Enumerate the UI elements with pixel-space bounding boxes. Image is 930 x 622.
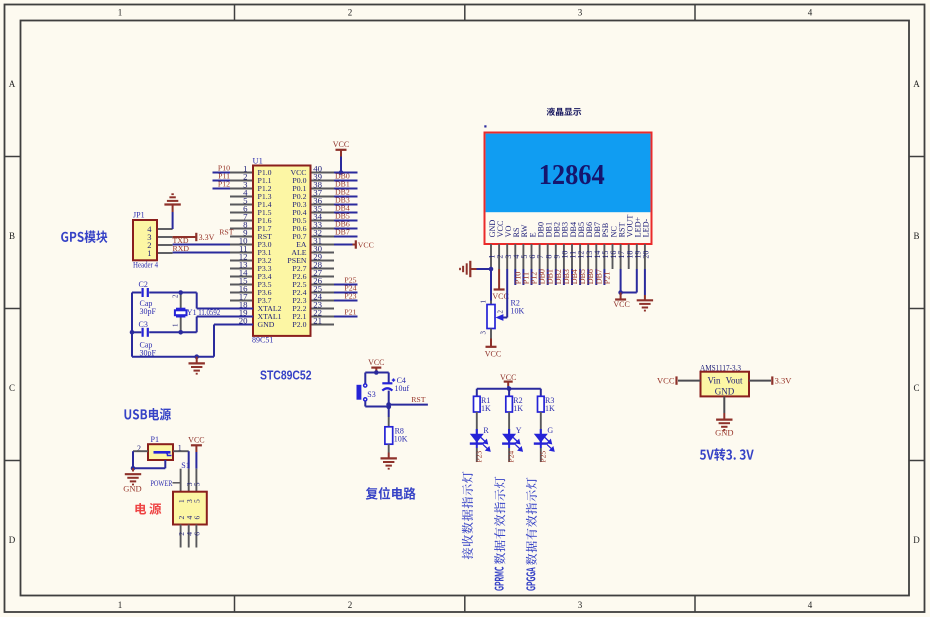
svg-text:3: 3 xyxy=(578,600,583,610)
svg-text:VCC: VCC xyxy=(657,376,675,386)
svg-text:G: G xyxy=(547,426,553,435)
svg-text:3: 3 xyxy=(480,331,488,335)
svg-text:GND: GND xyxy=(715,428,733,438)
svg-text:6: 6 xyxy=(193,516,202,520)
svg-text:11.0592: 11.0592 xyxy=(198,308,220,317)
svg-text:A: A xyxy=(9,79,16,89)
svg-text:VCC: VCC xyxy=(188,436,204,445)
svg-text:GND: GND xyxy=(258,320,275,329)
svg-text:JP1: JP1 xyxy=(133,211,145,220)
svg-text:12864: 12864 xyxy=(539,160,605,191)
svg-text:VCC: VCC xyxy=(358,240,374,249)
svg-text:1: 1 xyxy=(147,248,151,258)
svg-text:S3: S3 xyxy=(367,390,375,399)
svg-text:RXD: RXD xyxy=(173,244,190,253)
svg-text:3: 3 xyxy=(578,8,583,18)
svg-text:P2.0: P2.0 xyxy=(292,320,306,329)
svg-text:C: C xyxy=(9,383,15,393)
svg-text:C: C xyxy=(913,383,919,393)
svg-text:5: 5 xyxy=(193,499,202,503)
svg-text:2: 2 xyxy=(348,8,353,18)
svg-text:P23: P23 xyxy=(344,292,356,301)
svg-text:1K: 1K xyxy=(513,404,523,413)
svg-text:6: 6 xyxy=(193,532,202,536)
svg-text:VCC: VCC xyxy=(613,300,629,309)
svg-text:C2: C2 xyxy=(139,280,148,289)
svg-text:R: R xyxy=(483,426,489,435)
svg-text:1K: 1K xyxy=(481,404,491,413)
svg-text:P24: P24 xyxy=(507,451,516,463)
svg-text:VCC: VCC xyxy=(485,349,501,358)
svg-text:GND: GND xyxy=(715,387,735,397)
svg-text:10K: 10K xyxy=(511,307,525,316)
svg-text:10K: 10K xyxy=(394,435,408,444)
svg-text:P25: P25 xyxy=(538,451,547,463)
svg-text:20: 20 xyxy=(642,251,651,259)
svg-text:C3: C3 xyxy=(139,320,148,329)
svg-text:DB7: DB7 xyxy=(335,228,350,237)
svg-text:2: 2 xyxy=(172,294,180,298)
svg-text:POWER: POWER xyxy=(150,478,172,488)
svg-text:1: 1 xyxy=(172,323,180,327)
svg-text:U1: U1 xyxy=(253,156,263,166)
svg-text:2: 2 xyxy=(348,600,353,610)
svg-text:30pF: 30pF xyxy=(140,307,157,316)
svg-text:VCC: VCC xyxy=(368,358,384,367)
svg-text:B: B xyxy=(913,231,919,241)
svg-text:P21: P21 xyxy=(344,308,356,317)
svg-text:RST: RST xyxy=(411,395,426,404)
svg-text:Vout: Vout xyxy=(726,376,743,386)
svg-text:VCC: VCC xyxy=(333,140,349,149)
svg-text:Vin: Vin xyxy=(708,376,721,386)
svg-text:VCC: VCC xyxy=(500,373,516,382)
svg-text:P1: P1 xyxy=(151,435,159,444)
svg-text:P12: P12 xyxy=(218,180,230,189)
svg-text:4: 4 xyxy=(808,600,813,610)
svg-text:Y1: Y1 xyxy=(187,308,197,317)
svg-text:D: D xyxy=(9,535,16,545)
svg-text:D: D xyxy=(913,535,920,545)
svg-text:2: 2 xyxy=(497,310,505,314)
svg-text:89C51: 89C51 xyxy=(252,336,273,345)
svg-text:LED-: LED- xyxy=(642,218,651,237)
svg-text:4: 4 xyxy=(808,8,813,18)
svg-text:P23: P23 xyxy=(474,451,483,463)
svg-text:1: 1 xyxy=(480,300,488,304)
svg-text:STC89C52: STC89C52 xyxy=(260,368,312,383)
svg-text:3.3V: 3.3V xyxy=(775,375,793,385)
svg-text:1: 1 xyxy=(118,8,123,18)
svg-text:30pF: 30pF xyxy=(140,348,157,357)
svg-text:3.3V: 3.3V xyxy=(199,233,215,242)
svg-text:Y: Y xyxy=(516,426,522,435)
svg-text:S1: S1 xyxy=(181,461,189,470)
svg-text:1: 1 xyxy=(118,600,123,610)
svg-text:P21: P21 xyxy=(602,272,611,284)
svg-text:1K: 1K xyxy=(545,404,555,413)
svg-text:5: 5 xyxy=(193,482,202,486)
svg-text:A: A xyxy=(913,79,920,89)
svg-text:B: B xyxy=(9,231,15,241)
svg-text:21: 21 xyxy=(313,316,322,326)
svg-text:Header 4: Header 4 xyxy=(133,261,158,270)
svg-text:GND: GND xyxy=(123,484,141,494)
svg-text:10uf: 10uf xyxy=(395,384,410,393)
